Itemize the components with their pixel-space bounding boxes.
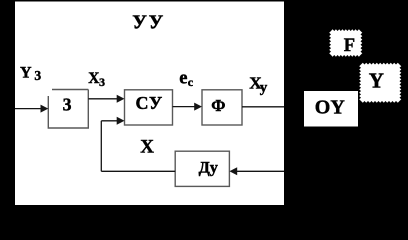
svg-text:Ф: Ф [211,96,225,115]
svg-text:УУ: УУ [132,12,165,34]
svg-text:Y: Y [20,65,32,82]
svg-text:с: с [188,75,194,89]
svg-text:3: 3 [34,68,41,83]
svg-text:Y: Y [369,69,384,93]
svg-text:СУ: СУ [136,93,164,113]
svg-text:ОY: ОY [315,97,346,119]
svg-text:F: F [344,36,355,56]
svg-text:X: X [140,137,154,158]
svg-text:3: 3 [63,94,72,114]
svg-text:е: е [179,68,187,88]
svg-text:y: y [260,80,268,96]
svg-text:Ду: Ду [199,157,218,176]
svg-text:3: 3 [99,75,105,89]
